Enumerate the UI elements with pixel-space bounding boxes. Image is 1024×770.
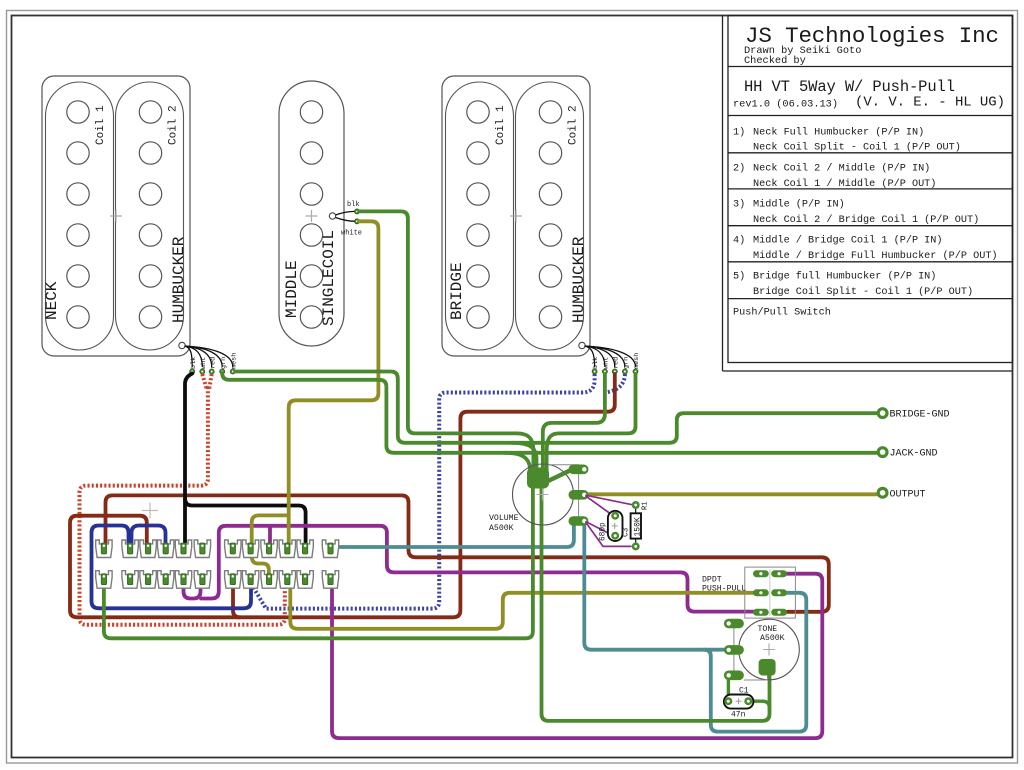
switch lug bottom row 4 bbox=[158, 571, 174, 589]
lead wire bbox=[185, 346, 212, 367]
DPDT pad r3c1 bbox=[753, 609, 769, 616]
neck pickup center cross bbox=[110, 210, 122, 222]
svg-text:150K: 150K bbox=[633, 517, 642, 536]
wire green neck-grn to JACK-GND bbox=[222, 373, 877, 453]
svg-text:Neck Coil 2 / Bridge Coil 1 (P: Neck Coil 2 / Bridge Coil 1 (P/P OUT) bbox=[753, 214, 979, 226]
volume knob-lug1 link bbox=[547, 470, 571, 482]
JACK-GND pad bbox=[878, 448, 887, 457]
wire purple main run to DPDT col1-row3 bbox=[201, 526, 753, 612]
svg-text:Neck Coil Split - Coil 1 (P/P: Neck Coil Split - Coil 1 (P/P OUT) bbox=[753, 142, 961, 154]
svg-text:blk: blk bbox=[347, 201, 360, 209]
svg-text:Coil 2: Coil 2 bbox=[568, 105, 580, 145]
lead wire bbox=[585, 346, 595, 367]
svg-text:680p: 680p bbox=[600, 522, 608, 541]
wire purple branch to top lug group2-3 bbox=[268, 527, 272, 543]
switch lug bottom row 10 bbox=[279, 571, 295, 589]
terminal bbox=[230, 369, 235, 374]
terminal bbox=[602, 369, 607, 374]
wire green neck-mesh to BRIDGE-GND bbox=[235, 372, 878, 443]
wire green C1 right pad branch bbox=[751, 701, 770, 708]
bridge pickup center cross bbox=[510, 210, 522, 222]
lead wire bbox=[185, 346, 233, 367]
switch lug top row 4 bbox=[158, 540, 174, 558]
wire bridge grn dashed blue stub bbox=[606, 374, 625, 392]
switch lug top row 8 bbox=[242, 540, 258, 558]
switch lug top row 5 bbox=[175, 540, 191, 558]
svg-text:DPDT: DPDT bbox=[702, 576, 722, 585]
svg-text:5): 5) bbox=[733, 270, 745, 282]
switch lug bottom row 5 bbox=[175, 571, 191, 589]
switch lug bottom row 6 bbox=[194, 571, 210, 589]
terminal bbox=[633, 369, 638, 374]
wire red/white dashed loop around switch bbox=[80, 387, 285, 625]
bridge pickup coil 2 bobbin bbox=[516, 82, 584, 350]
lead wire bbox=[585, 346, 636, 367]
lead wire bbox=[585, 346, 605, 367]
lead wire bbox=[585, 346, 615, 367]
svg-text:white: white bbox=[341, 230, 362, 238]
terminal bbox=[622, 369, 627, 374]
wire teal volume bottom lug to tone lug2 bbox=[584, 526, 724, 650]
svg-text:wht: wht bbox=[200, 357, 208, 369]
tone lug 1 bbox=[724, 619, 744, 629]
lead wire bbox=[185, 346, 203, 367]
svg-text:VOLUME: VOLUME bbox=[489, 514, 519, 523]
bridge pickup humbucker body bbox=[442, 76, 590, 356]
neck pickup coil 2 bobbin bbox=[116, 82, 184, 350]
terminal bbox=[209, 369, 214, 374]
svg-text:C1: C1 bbox=[739, 687, 749, 696]
svg-text:red: red bbox=[209, 357, 217, 369]
switch lug top row 1 bbox=[96, 540, 112, 558]
middle pickup exit bbox=[329, 213, 335, 219]
terminal bbox=[612, 369, 617, 374]
wire green middle-blk into volume knob bbox=[359, 211, 533, 473]
wire purple DPDT col2-row1 to bottom-group3 lug bbox=[332, 574, 822, 738]
wire maroon lug1-top to DPDT bbox=[106, 495, 829, 611]
svg-text:JACK-GND: JACK-GND bbox=[890, 449, 938, 460]
tone lug 3 bbox=[724, 671, 744, 681]
switch lug bottom row 7 bbox=[225, 571, 241, 589]
title block text bbox=[733, 23, 1005, 318]
svg-text:OUTPUT: OUTPUT bbox=[890, 489, 926, 500]
svg-text:R1: R1 bbox=[642, 502, 650, 510]
wire green bridge-wht into volume knob bbox=[543, 374, 605, 473]
DPDT pad r1c1 bbox=[753, 570, 769, 577]
svg-text:Neck Coil 1 / Middle (P/P OUT): Neck Coil 1 / Middle (P/P OUT) bbox=[753, 178, 936, 190]
thin purple volume to R1/C3 bbox=[586, 495, 632, 504]
tone lug 2 bbox=[724, 645, 744, 655]
svg-text:Coil 2: Coil 2 bbox=[168, 105, 180, 145]
OUTPUT pad bbox=[878, 488, 887, 497]
svg-text:47n: 47n bbox=[731, 711, 746, 720]
wire green 5way lug1-bottom ground bus bbox=[104, 486, 533, 638]
tone knob pad bbox=[759, 659, 776, 676]
capacitor C3 bbox=[608, 511, 623, 541]
DPDT pad r2c2 bbox=[771, 589, 787, 596]
switch lug bottom row 11 bbox=[297, 571, 313, 589]
svg-text:HH VT 5Way W/ Push-Pull: HH VT 5Way W/ Push-Pull bbox=[744, 78, 955, 96]
volume lug 1 bbox=[569, 465, 589, 475]
switch lug bottom row 9 bbox=[261, 571, 277, 589]
wire olive output volume to OUTPUT bbox=[588, 492, 878, 496]
svg-text:Checked by: Checked by bbox=[744, 55, 806, 67]
wire green bridge-mesh into volume knob bbox=[547, 374, 636, 473]
svg-text:grn: grn bbox=[623, 357, 631, 369]
volume lug 3 bbox=[569, 516, 589, 526]
svg-text:3): 3) bbox=[733, 198, 745, 210]
svg-text:MIDDLE: MIDDLE bbox=[283, 260, 301, 318]
svg-text:blk: blk bbox=[190, 357, 198, 369]
switch lug top row 7 bbox=[225, 540, 241, 558]
lead wire bbox=[185, 346, 193, 367]
wire olive branch through lug2-top to bottom lug3 bbox=[252, 515, 289, 577]
svg-text:rev1.0 (06.03.13): rev1.0 (06.03.13) bbox=[733, 99, 838, 111]
svg-text:(V. V. E. - HL UG): (V. V. E. - HL UG) bbox=[855, 95, 1005, 111]
wire green branch2 into volume knob bbox=[505, 453, 530, 473]
svg-text:Push/Pull Switch: Push/Pull Switch bbox=[733, 306, 831, 318]
svg-text:PUSH-PULL: PUSH-PULL bbox=[702, 585, 746, 594]
wire navy left loop to lug2-top and lug2-bottom bbox=[92, 526, 252, 609]
switch lug top row 6 bbox=[194, 540, 210, 558]
DPDT pad r1c2 bbox=[771, 570, 787, 577]
wire black branch to group2 lug5-top bbox=[185, 499, 306, 543]
DPDT pad r3c2 bbox=[771, 609, 787, 616]
svg-text:A500K: A500K bbox=[760, 634, 785, 643]
switch lug bottom row 3 bbox=[140, 571, 156, 589]
terminal bbox=[220, 369, 225, 374]
svg-text:A500K: A500K bbox=[489, 524, 514, 533]
switch lug bottom row 8 bbox=[242, 571, 258, 589]
switch lug top row 10 bbox=[279, 540, 295, 558]
svg-text:Middle (P/P IN): Middle (P/P IN) bbox=[753, 198, 845, 210]
switch lug top row 3 bbox=[140, 540, 156, 558]
svg-text:C3: C3 bbox=[623, 527, 631, 537]
svg-text:Bridge Coil Split - Coil 1 (P/: Bridge Coil Split - Coil 1 (P/P OUT) bbox=[753, 286, 973, 298]
switch lug bottom row 12 bbox=[322, 571, 338, 589]
wire green branch into volume knob bbox=[512, 443, 537, 473]
wire black neck-blk down to lug5-top bbox=[185, 374, 192, 543]
wire neck red lead (dashed red) bbox=[209, 374, 212, 389]
lead wire bbox=[185, 346, 223, 367]
bridge pickup coil 1 bobbin bbox=[446, 82, 514, 350]
svg-text:Middle / Bridge Full Humbucker: Middle / Bridge Full Humbucker (P/P OUT) bbox=[753, 250, 998, 262]
svg-text:HUMBUCKER: HUMBUCKER bbox=[170, 236, 188, 323]
resistor R1 bbox=[633, 502, 638, 507]
svg-text:BRIDGE-GND: BRIDGE-GND bbox=[890, 410, 950, 421]
wire neck wht lead (dashed red) bbox=[202, 374, 206, 389]
wire green volume to tone knob bbox=[542, 486, 770, 721]
svg-text:mesh: mesh bbox=[633, 353, 641, 369]
switch lug top row 11 bbox=[297, 540, 313, 558]
lead wire bbox=[585, 346, 625, 367]
wire teal DPDT col2-row2 loop to tone lug2 bbox=[704, 593, 806, 732]
tone pot body bbox=[739, 619, 800, 680]
DPDT switch bbox=[745, 567, 796, 618]
wire navy jumper lug2-lug4 bbox=[132, 526, 166, 543]
DPDT pad r2c1 bbox=[753, 589, 769, 596]
volume pot body bbox=[513, 464, 574, 525]
neck pickup coil 1 bobbin bbox=[46, 82, 114, 350]
svg-text:Neck Full Humbucker (P/P IN): Neck Full Humbucker (P/P IN) bbox=[753, 127, 924, 139]
wire olive middle-white to top lug group2-4 bbox=[289, 221, 379, 542]
wire teal top-group3 lug to volume bottom lug bbox=[333, 524, 574, 547]
switch lug bottom row 1 bbox=[96, 571, 112, 589]
svg-text:Coil 1: Coil 1 bbox=[495, 105, 507, 145]
svg-text:mesh: mesh bbox=[230, 353, 238, 369]
wire green C1 left pad to tone lug3 bbox=[727, 677, 730, 698]
switch lug top row 9 bbox=[261, 540, 277, 558]
volume knob pad bbox=[527, 468, 549, 489]
svg-text:TONE: TONE bbox=[758, 625, 778, 634]
switch lug top row 12 bbox=[322, 540, 338, 558]
terminal bbox=[200, 369, 205, 374]
wire bridge blk dashed blue bbox=[253, 374, 595, 609]
wire purple U lug5-lug6 bottom bbox=[184, 582, 201, 599]
middle single coil body bbox=[279, 81, 344, 346]
wire maroon branch to lug1 bottom bbox=[233, 582, 240, 617]
volume lug 2 bbox=[569, 490, 589, 500]
terminal bbox=[592, 369, 597, 374]
svg-text:1): 1) bbox=[733, 127, 745, 139]
svg-text:red: red bbox=[612, 357, 620, 369]
svg-text:blk: blk bbox=[592, 357, 600, 369]
neck pickup humbucker body bbox=[42, 76, 190, 356]
svg-text:2): 2) bbox=[733, 162, 745, 174]
switch lug top row 2 bbox=[122, 540, 138, 558]
svg-text:Neck Coil 2 / Middle (P/P IN): Neck Coil 2 / Middle (P/P IN) bbox=[753, 162, 930, 174]
pickup wire exit bbox=[179, 342, 185, 348]
svg-text:wht: wht bbox=[603, 357, 611, 369]
svg-text:Coil 1: Coil 1 bbox=[95, 105, 107, 145]
switch lug bottom row 2 bbox=[122, 571, 138, 589]
svg-text:Bridge full Humbucker (P/P IN): Bridge full Humbucker (P/P IN) bbox=[753, 270, 936, 282]
wire olive bottom lug4 to DPDT col1-row2 bbox=[290, 584, 753, 629]
BRIDGE-GND pad bbox=[878, 409, 887, 418]
svg-text:HUMBUCKER: HUMBUCKER bbox=[570, 236, 588, 323]
svg-text:BRIDGE: BRIDGE bbox=[448, 262, 466, 320]
terminal bbox=[190, 369, 195, 374]
svg-text:Middle / Bridge Coil 1 (P/P IN: Middle / Bridge Coil 1 (P/P IN) bbox=[753, 235, 943, 247]
title block box bbox=[723, 16, 1013, 372]
wire maroon bridge-red loop bbox=[70, 374, 615, 617]
svg-text:NECK: NECK bbox=[43, 281, 61, 320]
capacitor C1 bbox=[724, 695, 754, 709]
svg-text:grn: grn bbox=[220, 357, 228, 369]
svg-text:SINGLECOIL: SINGLECOIL bbox=[320, 230, 338, 326]
5-way switch center cross bbox=[142, 503, 158, 519]
pickup wire exit bbox=[579, 342, 585, 348]
svg-text:4): 4) bbox=[733, 235, 745, 247]
